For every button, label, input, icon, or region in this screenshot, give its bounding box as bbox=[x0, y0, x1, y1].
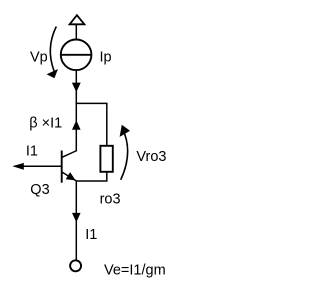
transistor Q3 emitter lead bbox=[62, 172, 77, 181]
transistor Q3 collector lead bbox=[62, 151, 77, 158]
transistor Q3 base bar bbox=[61, 151, 63, 183]
wire emitter to terminal bbox=[75, 181, 77, 260]
svg-text:Ve=I1/gm: Ve=I1/gm bbox=[104, 262, 166, 278]
base lead arrowhead (left) bbox=[13, 163, 24, 170]
Vp arc bbox=[50, 27, 56, 71]
wire ro3 branch top (vertical) bbox=[106, 103, 108, 146]
current source Ip (circle with chord) bbox=[61, 40, 92, 71]
Vro3 arc bbox=[121, 134, 128, 180]
svg-text:Q3: Q3 bbox=[30, 182, 49, 198]
current arrowhead Ip (down) bbox=[72, 83, 81, 93]
wire node to ro3 branch (horizontal) bbox=[76, 102, 107, 104]
wire triangle to source bbox=[75, 24, 77, 39]
wire source to node bbox=[75, 70, 77, 104]
current arrowhead I1 (down) bbox=[72, 213, 81, 222]
svg-text:Vp: Vp bbox=[30, 49, 48, 65]
resistor ro3 body bbox=[100, 146, 112, 172]
svg-text:Vro3: Vro3 bbox=[136, 149, 166, 165]
wire ro3 bottom bbox=[106, 172, 108, 181]
output terminal (open circle) bbox=[70, 260, 81, 271]
transistor Q3 base lead bbox=[14, 165, 62, 167]
wire ro3 branch to emitter (horizontal) bbox=[76, 180, 108, 182]
emitter arrowhead bbox=[66, 172, 76, 180]
svg-text:β ×I1: β ×I1 bbox=[29, 115, 62, 131]
current arrowhead beta*I1 (up) bbox=[72, 120, 81, 129]
svg-text:Ip: Ip bbox=[100, 50, 112, 66]
svg-text:ro3: ro3 bbox=[100, 192, 121, 208]
svg-text:I1: I1 bbox=[85, 227, 97, 243]
wire collector (vertical) bbox=[75, 103, 77, 151]
svg-text:I1: I1 bbox=[26, 143, 38, 159]
Vp arc arrowhead bbox=[47, 69, 58, 78]
supply symbol (open triangle) bbox=[70, 15, 85, 24]
Vro3 arc arrowhead bbox=[120, 125, 130, 137]
